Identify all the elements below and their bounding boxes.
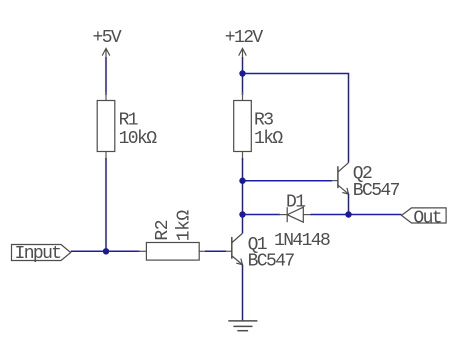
transistor Q1 [226,233,295,271]
wire Q2 emitter to node E [348,194,350,215]
svg-text:1kΩ: 1kΩ [254,129,283,149]
svg-text:D1: D1 [286,193,305,213]
svg-text:R2: R2 [153,220,173,241]
wire +5V to R1 [105,57,107,95]
node D junction [239,211,245,217]
wire Input to node A [71,250,140,252]
node C junction [239,178,245,184]
wire Q1 emitter to ground [242,265,244,321]
power +5V [93,28,122,57]
svg-text:R3: R3 [254,111,273,131]
wire R3 to Q1 collector [242,158,244,233]
diode D1 [274,193,330,252]
port Input [12,244,71,264]
transistor Q2 [332,163,400,201]
wire node B to Q2 collector [243,74,349,163]
svg-text:BC547: BC547 [248,251,295,271]
power +12V [225,28,264,57]
node B junction [239,70,245,76]
port Out [402,208,447,228]
svg-text:BC547: BC547 [353,181,400,201]
wire R2 to Q1 base [205,250,226,252]
svg-text:+5V: +5V [93,28,122,48]
resistor R3 [234,92,284,160]
resistor R2 [138,210,207,261]
svg-text:Input: Input [15,244,61,264]
wire D1 to Out [311,214,402,216]
wire R1 to input node [105,158,107,251]
svg-text:10kΩ: 10kΩ [119,129,158,149]
wire +12V to R3 [242,57,244,95]
wire node C to Q2 base [243,180,333,182]
svg-text:+12V: +12V [225,28,264,48]
svg-text:Out: Out [413,208,441,228]
svg-text:1kΩ: 1kΩ [174,210,194,242]
svg-text:R1: R1 [119,111,138,131]
node A junction [103,248,109,254]
resistor R1 [97,92,157,160]
node E junction [345,211,351,217]
ground [228,321,257,331]
wire node D to D1 [243,214,281,216]
svg-text:1N4148: 1N4148 [274,231,330,251]
